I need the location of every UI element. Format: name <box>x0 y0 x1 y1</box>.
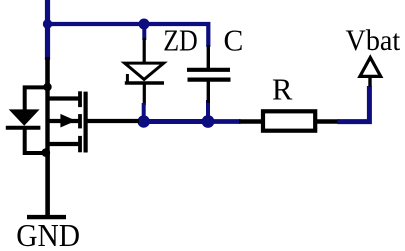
wire W6: resistor to Vbat branch <box>338 86 370 122</box>
wire W1: battery feed from top edge (blue vertical) <box>45 0 50 60</box>
power symbol: Vbat arrow <box>360 58 381 87</box>
node N6: source / body-diode bottom junction <box>42 148 51 157</box>
node N1: top-left junction <box>43 19 52 28</box>
wire W4: gate node rail between zener and capacitor <box>144 119 208 124</box>
wire W2: top rail to capacitor branch <box>48 24 209 47</box>
svg-text:Vbat: Vbat <box>346 24 401 57</box>
zener diode ZD <box>125 38 164 105</box>
wire W5: gate node rail to resistor <box>208 119 241 124</box>
svg-text:C: C <box>224 24 244 58</box>
ground GND symbol <box>27 215 66 219</box>
wire W8: source down to ground <box>45 152 50 217</box>
node N3: zener bottom junction <box>138 103 150 128</box>
svg-text:R: R <box>272 73 293 107</box>
node N4: capacitor bottom junction <box>202 100 215 128</box>
svg-text:ZD: ZD <box>163 23 198 58</box>
svg-text:GND: GND <box>16 218 80 251</box>
capacitor C <box>187 45 231 103</box>
diode D1: body diode <box>6 87 48 153</box>
node N2: zener top junction <box>139 19 150 30</box>
wire W3: zener top lead (blue part) <box>142 24 146 40</box>
wire W7: drain feed (black vertical below blue) <box>45 57 50 89</box>
resistor R <box>239 111 339 130</box>
transistor Q1: N-channel MOSFET (gate on right) <box>48 85 140 153</box>
node N5: drain / body-diode top junction <box>43 83 51 91</box>
